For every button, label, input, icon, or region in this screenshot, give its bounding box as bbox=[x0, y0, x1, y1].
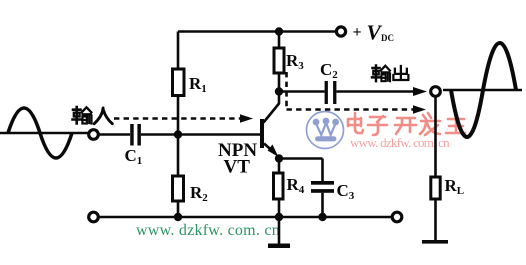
svg-text:+: + bbox=[353, 24, 362, 41]
svg-text:www. dzkfw. com. cn: www. dzkfw. com. cn bbox=[136, 222, 280, 239]
svg-text:DC: DC bbox=[381, 33, 394, 43]
svg-text:VT: VT bbox=[224, 157, 251, 178]
